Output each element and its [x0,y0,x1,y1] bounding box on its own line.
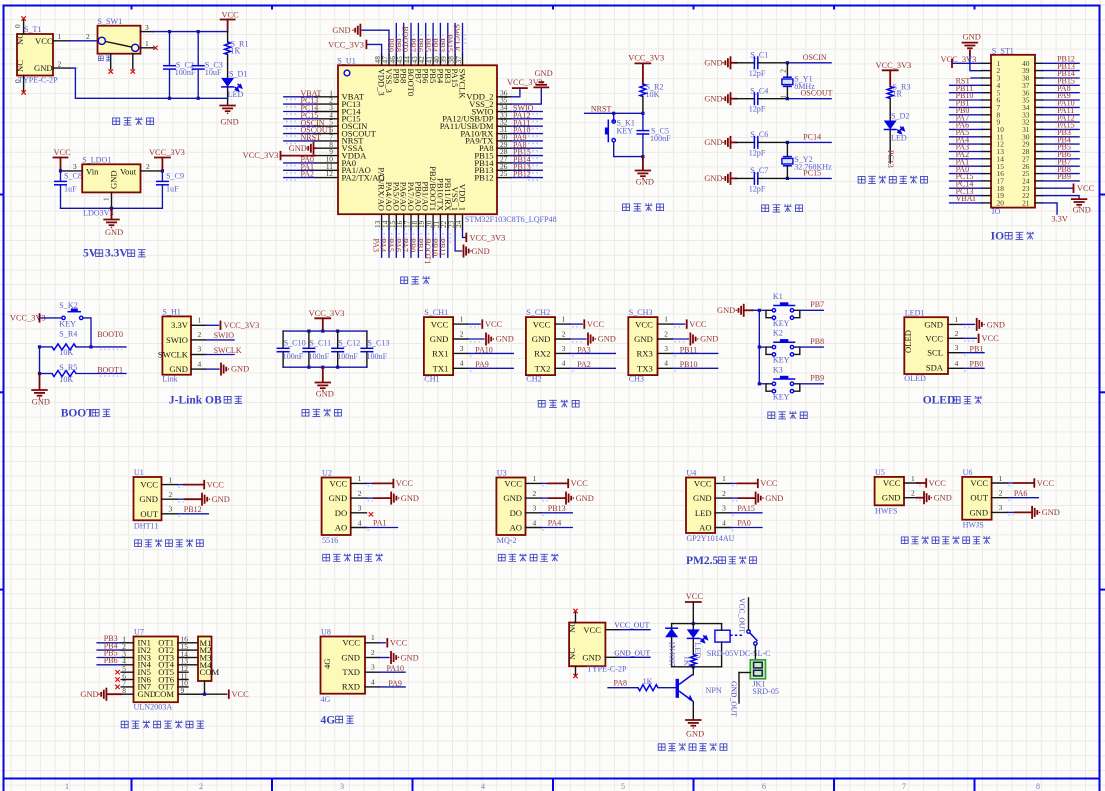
U8 pin 2 GND [365,648,419,663]
svg-text:GND: GND [289,144,307,153]
svg-text:SWCLK: SWCLK [158,349,189,359]
svg-text:GND: GND [221,118,239,127]
svg-text:KEY: KEY [773,356,790,365]
power port VCC_3V3 (LDO out) [149,148,185,171]
svg-text:VCC: VCC [533,319,551,329]
svg-text:VCC: VCC [929,479,947,488]
svg-text:GND: GND [598,335,616,344]
CH1 pin 2 GND [453,329,514,344]
net label BOOT0 [91,330,126,349]
U7 pin 4 IN4 [97,656,151,670]
svg-text:1N4007: 1N4007 [668,641,677,667]
U1 pin 41 PB5 (top) [423,24,438,84]
svg-text:S_U1: S_U1 [337,57,355,66]
U1 pin 14 PA4/AO (bottom) [379,182,394,257]
T1 VCC pin 1 [53,32,80,41]
key K2 (PB8) [759,329,800,365]
power port VCC_3V3 (reset) [628,54,664,85]
svg-text:S_R5: S_R5 [59,363,77,372]
svg-text:10K: 10K [646,90,660,99]
net label VCC_OUT [605,621,650,630]
SW1 pin 1 [141,39,158,50]
U1 pin 15 PA5/AO (bottom) [386,182,401,257]
svg-text:10uF: 10uF [205,68,222,77]
svg-text:4: 4 [562,359,566,368]
U1 pin 36 VDD_2 [466,78,543,102]
U7 pin 12 OT5 [158,664,188,677]
capacitor C11 100nF [302,331,331,367]
ST1 pin 21 [1022,199,1068,224]
key K1 (reset) [605,113,643,156]
caption 分离式红外开关模块 [901,536,990,544]
net label PB7 [800,300,824,310]
svg-text:GP2Y1014AU: GP2Y1014AU [686,534,734,543]
ST1 pin 34 [1022,99,1079,112]
resistor 1K (base) [638,677,676,691]
svg-text:GND: GND [693,493,712,503]
svg-text:1: 1 [562,315,566,324]
power port GND (boot) [32,374,50,407]
svg-text:U4: U4 [686,469,696,478]
ST1 pin 10 [950,121,1005,134]
svg-text:12pF: 12pF [749,69,766,78]
ST1 pin 30 [1022,128,1079,141]
svg-text:4: 4 [358,518,362,527]
svg-text:U5: U5 [875,468,885,477]
resistor R4 10K [38,330,93,357]
wire switch to JK1 [754,645,756,660]
svg-text:VCC: VCC [431,319,449,329]
svg-text:GND_OUT: GND_OUT [614,648,650,657]
svg-text:2: 2 [86,32,90,41]
key K3 (PB9) [759,365,800,401]
CH3 pin 1 VCC [658,315,707,330]
wire filter top rail [283,330,367,333]
U1 pin 22 PB11/RX (bottom) [437,178,452,257]
svg-text:1: 1 [371,633,375,642]
ST1 pin 19 [950,187,1005,200]
svg-text:PA10: PA10 [475,345,493,354]
svg-text:PB12: PB12 [513,170,531,179]
svg-text:4: 4 [664,359,668,368]
power port GND (filter) [316,367,334,398]
svg-text:5516: 5516 [322,536,338,545]
svg-text:DO: DO [335,508,347,518]
relay coil SRD-05VDC-SL-C [707,624,771,658]
svg-text:SWIO: SWIO [166,335,188,345]
net label VCC_OUT (vertical) [738,598,747,633]
U1 pin 3 PC14 [284,103,362,116]
svg-text:GND_OUT: GND_OUT [730,681,739,717]
svg-text:4: 4 [371,677,375,686]
resistor R2 10K [640,83,664,114]
svg-text:1: 1 [145,39,149,48]
caption 4G模块 [321,715,354,727]
svg-text:GND: GND [634,334,653,344]
svg-text:GND: GND [924,319,943,329]
svg-text:PA1: PA1 [373,519,387,528]
svg-text:RXD: RXD [342,682,360,692]
net label GND_OUT (vertical) [730,681,739,717]
svg-text:LED: LED [228,90,244,99]
CH1 pin 3 PA10 [453,344,513,356]
U1 pin 21 PB10/TX (bottom) [430,178,445,257]
ST1 pin 25 [1022,165,1079,178]
caption 晶振电路 [762,204,803,212]
module U8 4G body [321,628,366,704]
svg-text:24: 24 [454,220,463,228]
svg-text:12pF: 12pF [749,148,766,157]
svg-text:S_C10: S_C10 [284,339,306,348]
svg-text:VCC: VCC [583,625,601,635]
svg-text:CH2: CH2 [526,374,541,383]
ST1 pin 15 [950,157,1005,170]
svg-text:VCC: VCC [390,639,408,648]
svg-text:GND: GND [987,320,1005,329]
ST1 pin 29 [1022,135,1079,148]
U1 pin 46 PB9 (top) [386,24,401,84]
svg-text:GND: GND [138,689,157,699]
svg-text:3: 3 [371,663,375,672]
svg-text:S_C1: S_C1 [750,51,768,60]
header ST1 body [991,47,1035,217]
svg-text:NC: NC [15,60,25,72]
svg-text:VCC: VCC [1077,184,1095,193]
svg-text:100nF: 100nF [650,134,671,143]
U1 pin 7 NRST [284,132,364,145]
svg-text:VCC: VCC [883,478,901,488]
svg-text:2: 2 [199,782,203,791]
U1 pin 18 PB0/AO (bottom) [408,181,423,257]
ST1 pin 40 [1022,55,1079,68]
svg-text:U8: U8 [321,628,331,637]
svg-text:GND: GND [636,178,654,187]
CH2 pin 1 VCC [555,315,604,330]
ST1 pin 27 [1022,150,1079,163]
svg-text:NRST: NRST [301,133,322,142]
U7 pin 3 IN3 [97,649,151,663]
caption IO拓展口 [991,231,1034,243]
svg-text:BOOT: BOOT [61,408,95,420]
svg-text:DHT11: DHT11 [134,521,158,530]
svg-text:GND: GND [169,364,188,374]
U2 pin 1 VCC [330,474,414,488]
crystal Y1 8MHz [779,63,816,99]
svg-text:3.3V: 3.3V [171,320,189,330]
svg-text:1: 1 [722,474,726,483]
svg-text:VCC: VCC [342,638,360,648]
svg-text:1uF: 1uF [166,185,179,194]
svg-text:4: 4 [460,359,464,368]
power port GND (relay) [686,720,704,739]
U7 pin 10 OT7 [158,679,188,692]
U5 pin 2 GND [882,489,952,504]
caption 复位电路 [623,203,664,211]
svg-text:1: 1 [198,316,202,325]
H1 pin 3 [191,345,242,355]
svg-text:KEY: KEY [617,126,634,135]
svg-text:LED: LED [891,134,907,143]
ST1 pin 35 [1022,91,1079,104]
caption 5V转3.3V电路 [83,248,146,260]
power port VCC_3V3 (led) [876,61,912,87]
svg-text:SWCLK: SWCLK [458,69,468,100]
svg-text:SDA: SDA [926,362,944,372]
U1 pin 6 OSCOUT [284,125,377,138]
U2 pin 3 DO [335,504,373,518]
svg-text:CH3: CH3 [629,374,644,383]
svg-text:VCC: VCC [694,478,712,488]
caption BOOT电路 [61,408,111,420]
ST1 pin 26 [1022,157,1079,170]
caption 四相五线步进电机 [121,721,204,729]
svg-text:12pF: 12pF [749,105,766,114]
U1 pin 23 VSS_1 (bottom) [447,187,490,257]
svg-text:GND: GND [963,33,981,42]
svg-text:GND: GND [704,174,722,183]
svg-text:1: 1 [169,475,173,484]
svg-text:3: 3 [999,503,1003,512]
svg-text:4: 4 [955,359,959,368]
svg-text:10K: 10K [59,348,73,357]
svg-text:OUT: OUT [970,493,988,503]
svg-text:HWJS: HWJS [963,521,984,530]
svg-text:SCL: SCL [927,348,943,358]
svg-text:HWFS: HWFS [875,506,898,515]
svg-text:NPN: NPN [706,686,722,695]
wire COM to VCC [188,681,227,696]
header CH3 body [628,308,657,383]
ST1 pin 17 [950,172,1005,185]
svg-text:32.768KHz: 32.768KHz [794,162,832,171]
svg-text:1K: 1K [683,656,692,666]
svg-text:TYPE-C-2P: TYPE-C-2P [587,665,627,674]
capacitor C7 12pF [704,166,787,193]
U7 pin 11 OT6 [158,671,188,684]
U1 pin 39 PB3 (top) [437,24,452,84]
svg-text:3: 3 [460,344,464,353]
svg-text:1K: 1K [643,677,653,686]
ST1 pin 16 [950,165,1005,178]
svg-text:PB13: PB13 [548,504,566,513]
svg-text:GND: GND [717,306,735,315]
svg-text:GND: GND [472,247,490,256]
svg-text:GND: GND [32,398,50,407]
svg-text:GND: GND [231,365,249,374]
U1 pin 25 PB12 [474,169,542,182]
net label PB8 [800,337,824,347]
key K2 (boot) [59,301,91,347]
svg-text:VCC_3V3: VCC_3V3 [470,233,506,242]
svg-text:VCC: VCC [635,319,653,329]
U7 pin 9 COM [154,686,204,699]
CH3 pin 3 PB11 [658,344,718,356]
svg-text:VCC: VCC [689,320,707,329]
svg-text:0: 0 [13,24,22,28]
power port VCC [221,11,240,32]
U2 pin 4 AO [335,518,398,532]
svg-text:1K: 1K [231,47,241,56]
svg-text:RX3: RX3 [637,349,653,359]
U6 pin 1 VCC [970,474,1054,488]
svg-text:GND: GND [316,390,334,399]
capacitor C13 100nF [360,331,389,367]
svg-text:K2: K2 [773,329,783,338]
svg-text:GND: GND [582,653,601,663]
svg-text:GND: GND [332,26,350,35]
caption 电源电路 [113,117,154,125]
regulator LDO1 body [82,156,140,218]
svg-text:21: 21 [1022,199,1030,208]
svg-text:2: 2 [999,489,1003,498]
caption OLED显示屏 [923,395,982,407]
net label PC15 [786,168,831,180]
T1 bottom NC pin [13,76,26,95]
svg-text:PA9: PA9 [475,360,489,369]
header CH2 body [526,308,555,383]
U1 pin 3 OUT [140,505,208,519]
svg-text:2: 2 [460,329,464,338]
CH3 pin 4 PB10 [658,359,718,371]
caption 按键电路 [768,411,807,419]
wire collector [692,667,694,675]
resistor R5 10K [38,363,126,384]
connector TYPE-C-2P (relay) body [567,621,627,674]
svg-text:100nF: 100nF [308,352,329,361]
svg-text:GND: GND [503,493,522,503]
svg-text:S_CH3: S_CH3 [629,308,653,317]
svg-text:PB8: PB8 [810,337,824,346]
resistor 1K (relay led) [683,638,697,666]
svg-text:1: 1 [65,782,69,791]
MCU U1 STM32F103C8T6 body [337,57,556,225]
svg-text:LED1: LED1 [905,309,925,318]
svg-text:1: 1 [102,197,111,201]
U1 pin 17 PA7/AO (bottom) [401,182,416,257]
ST1 pin 3 [982,74,1001,83]
svg-text:OLED: OLED [923,395,956,407]
svg-text:SRD-05VDC-SL-C: SRD-05VDC-SL-C [707,649,771,658]
svg-text:4G: 4G [321,715,336,727]
svg-text:PA10: PA10 [387,664,405,673]
ST1 pin 38 [1022,69,1079,82]
capacitor C12 100nF [331,331,360,367]
svg-text:37: 37 [454,56,463,64]
caption 烟雾检测模块 [498,554,558,562]
svg-text:DO: DO [510,508,522,518]
wire T1.VCC to SW1 [70,32,98,41]
svg-text:S_C8: S_C8 [64,172,82,181]
svg-text:2: 2 [562,329,566,338]
svg-text:6: 6 [762,782,766,791]
svg-text:1: 1 [911,474,915,483]
U3 pin 4 AO [510,518,573,532]
svg-text:GND: GND [576,494,594,503]
svg-text:3: 3 [145,23,149,32]
U1 pin 32 PA11/USB/DM [440,118,543,131]
H1 pin 1 [191,316,259,331]
caption 主芯片 [401,276,430,284]
svg-text:ULN2003A: ULN2003A [134,703,173,712]
svg-text:3: 3 [562,344,566,353]
svg-text:8: 8 [122,686,126,695]
U1 pin 29 PA8 [479,140,542,153]
net label OSCOUT [786,89,833,101]
svg-text:PA2: PA2 [301,170,315,179]
svg-text:PA3: PA3 [577,345,591,354]
svg-text:LED: LED [695,508,712,518]
ST1 pin 20 [950,194,1005,207]
U1 pin 1 VCC [140,475,224,489]
power port GND (IO top) [963,33,981,56]
svg-text:GND: GND [34,63,53,73]
svg-text:VCC_3V3: VCC_3V3 [309,309,345,318]
svg-text:S_SW1: S_SW1 [98,17,123,26]
U7 pin 1 IN1 [97,634,151,648]
svg-text:4: 4 [722,518,726,527]
svg-text:S_C7: S_C7 [750,166,768,175]
svg-text:3: 3 [340,782,344,791]
svg-text:S_C4: S_C4 [750,87,768,96]
svg-text:PA8: PA8 [614,679,628,688]
T1 GND pin 2 [53,59,80,68]
wire IO pin3 stub [971,77,982,79]
net label PC14 [786,132,831,144]
svg-text:GND: GND [105,228,123,237]
svg-text:3: 3 [722,504,726,513]
svg-text:3.3V: 3.3V [105,248,128,260]
svg-text:GND: GND [882,493,901,503]
U1 pin 28 PB15 [474,147,542,160]
U1 pin 31 PA10/RX [460,125,542,138]
svg-text:LDO3V3: LDO3V3 [83,209,114,218]
svg-text:U1: U1 [134,468,144,477]
svg-text:STM32F103C8T6_LQFP48: STM32F103C8T6_LQFP48 [465,215,557,224]
svg-text:1: 1 [358,474,362,483]
svg-text:Vout: Vout [120,167,137,177]
capacitor C3 10uF [192,32,223,99]
svg-text:VCC: VCC [571,479,589,488]
svg-text:NC: NC [567,648,577,660]
svg-text:25: 25 [500,169,508,178]
svg-text:PB9: PB9 [810,374,824,383]
svg-text:GND: GND [934,494,952,503]
module U4 GP2Y1014AU body [686,469,735,543]
diode 1N4007 [665,624,678,667]
TYPE-C-2P top NC pin [573,609,577,623]
power port VCC_3V3 (IO pin1) [941,55,982,67]
svg-text:BOOT0: BOOT0 [97,330,123,339]
svg-text:IO: IO [992,207,1001,216]
svg-text:VCC: VCC [587,320,605,329]
net label PC13 (led) [886,150,895,168]
svg-text:4: 4 [481,782,485,791]
U4 pin 4 AO [699,518,762,532]
svg-text:TX1: TX1 [433,364,449,374]
U1 pin 48 VDD_3 (top) [328,41,386,96]
svg-text:1: 1 [999,474,1003,483]
svg-text:S_LDO1: S_LDO1 [82,156,111,165]
wire emitter to GND [692,702,694,720]
svg-text:S_C13: S_C13 [367,339,389,348]
svg-text:2: 2 [779,69,788,73]
svg-text:GND: GND [139,494,158,504]
svg-text:2: 2 [955,329,959,338]
svg-text:COM: COM [154,689,174,699]
LED D2 [884,112,910,164]
LED1 pin 4 SDA [948,359,984,371]
U4 pin 1 VCC [694,474,778,488]
